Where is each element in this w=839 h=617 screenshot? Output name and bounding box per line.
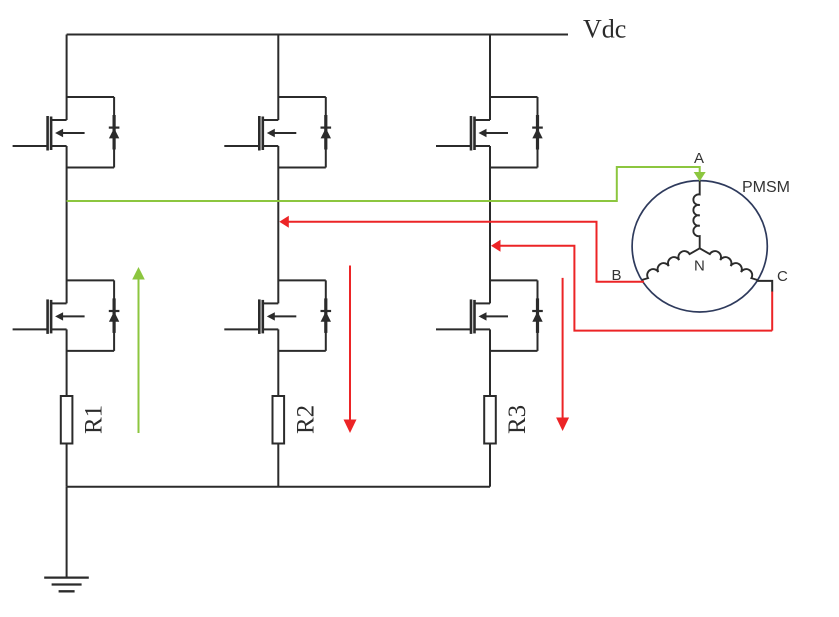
MOSFET Q3 (phase B high side): [224, 116, 296, 151]
wire: leg B low-side source to shunt: [277, 329, 279, 396]
MOSFET Q1 (phase A high side): [13, 116, 85, 151]
body diode D6: [490, 280, 543, 351]
wire: phase B connection (red): [287, 222, 644, 282]
PMSM motor body (stator circle): [632, 181, 767, 312]
resistor R2 (shunt): [273, 396, 285, 444]
winding phase A: [693, 181, 699, 248]
wire: Vdc positive rail: [67, 34, 568, 36]
wire: leg A drain from Vdc rail: [66, 35, 68, 121]
wire: phase A connection (green): [67, 167, 700, 201]
wire: leg A low-side source to shunt: [66, 329, 68, 396]
wire: negative (ground) rail: [67, 486, 490, 488]
svg-text:R1: R1: [81, 405, 108, 434]
MOSFET Q2 (phase A low side): [13, 299, 85, 334]
wire: leg A midpoint (phase node A): [66, 146, 68, 303]
wire: leg C low-side source to shunt: [489, 329, 491, 396]
wire: leg A shunt to ground rail: [66, 444, 68, 487]
wire: leg C shunt to ground rail: [489, 444, 491, 487]
body diode D2: [67, 280, 120, 351]
ground: [44, 578, 89, 592]
svg-text:C: C: [777, 268, 788, 285]
wire: motor terminal C stub: [757, 281, 772, 292]
svg-text:A: A: [694, 150, 704, 167]
body diode D1: [67, 97, 120, 168]
arrowhead into motor terminal A (green): [694, 172, 706, 181]
MOSFET Q5 (phase C high side): [436, 116, 508, 151]
arrowhead into leg C midpoint (red): [491, 240, 501, 252]
winding phase B: [642, 248, 700, 280]
wire: leg C midpoint (phase node C): [489, 146, 491, 303]
svg-text:N: N: [694, 258, 705, 275]
svg-text:Vdc: Vdc: [583, 15, 626, 44]
resistor R1 (shunt): [61, 396, 73, 444]
wire: leg B drain from Vdc rail: [277, 35, 279, 121]
svg-text:R2: R2: [292, 405, 319, 434]
wire: leg B shunt to ground rail: [277, 444, 279, 487]
body diode D4: [278, 280, 331, 351]
svg-text:PMSM: PMSM: [742, 179, 790, 196]
arrowhead into leg B midpoint (red): [279, 216, 289, 228]
resistor R3 (shunt): [484, 396, 496, 444]
wire: ground stem: [66, 487, 68, 578]
MOSFET Q6 (phase C low side): [436, 299, 508, 334]
wire: leg B midpoint (phase node B): [277, 146, 279, 303]
body diode D3: [278, 97, 331, 168]
MOSFET Q4 (phase B low side): [224, 299, 296, 334]
current arrow down through leg B (red): [349, 266, 351, 420]
current arrow down through leg C (red): [562, 278, 564, 418]
wire: phase C connection (red): [499, 246, 772, 331]
svg-text:R3: R3: [504, 405, 531, 434]
current arrow up through leg A (green): [138, 279, 140, 434]
wire: leg C drain from Vdc rail: [489, 35, 491, 121]
winding phase C: [700, 248, 758, 280]
body diode D5: [490, 97, 543, 168]
